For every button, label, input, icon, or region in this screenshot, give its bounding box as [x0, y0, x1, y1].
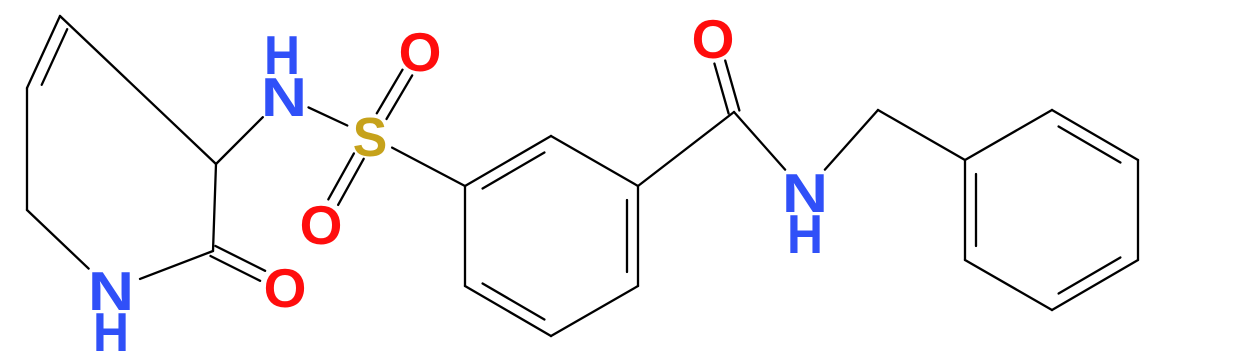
- wire S-C1: [392, 148, 465, 186]
- sulfonamide group: [309, 70, 466, 205]
- amide group: [638, 61, 965, 187]
- S=O top: [387, 75, 413, 119]
- phenyl edge 1: [965, 110, 1052, 160]
- wire C3-Nsulfonamide: [216, 117, 263, 164]
- benzene edge 5: [465, 286, 551, 336]
- phenyl double bond inner line: [1059, 127, 1121, 163]
- svg-text:O: O: [399, 21, 442, 83]
- wire N1-C2: [140, 251, 213, 279]
- phenyl edge 5: [965, 260, 1052, 310]
- wire C7-N1: [27, 210, 89, 269]
- benzene edge 2: [551, 136, 638, 186]
- svg-text:H: H: [93, 301, 129, 361]
- benzene double bond inner line: [483, 284, 545, 320]
- wire C2-C3: [213, 164, 216, 251]
- benzene edge 6: [464, 186, 466, 286]
- central benzene ring: [465, 136, 638, 336]
- atom labels: [88, 8, 828, 361]
- right phenyl ring: [965, 110, 1138, 310]
- wire CH2-phenyl: [878, 110, 965, 160]
- double bond C5=C6: [27, 16, 60, 88]
- svg-text:O: O: [692, 8, 735, 70]
- wire N-S: [309, 107, 348, 125]
- phenyl edge 4: [1052, 260, 1138, 310]
- benzene edge 1: [465, 136, 551, 186]
- svg-text:N: N: [261, 66, 307, 128]
- svg-text:H: H: [787, 203, 823, 265]
- benzene double bond inner line: [483, 153, 545, 189]
- svg-text:S: S: [353, 106, 388, 168]
- wire CO-Namide: [734, 112, 785, 170]
- wire C3b-CO: [638, 112, 734, 186]
- phenyl edge 3: [1137, 160, 1139, 260]
- amide C=O: [725, 61, 739, 111]
- phenyl double bond inner line: [975, 174, 977, 246]
- left lactam ring: [27, 16, 265, 281]
- carbonyl C2=O: [211, 256, 261, 281]
- phenyl edge 2: [1052, 110, 1138, 160]
- phenyl edge 6: [964, 160, 966, 260]
- phenyl double bond inner line: [1059, 258, 1121, 294]
- wire C3-C4-C5: [60, 16, 216, 164]
- benzene edge 4: [551, 286, 638, 336]
- svg-text:O: O: [264, 257, 307, 319]
- benzene double bond inner line: [626, 200, 628, 272]
- svg-text:O: O: [300, 194, 343, 256]
- wire Namide-CH2: [825, 110, 878, 170]
- S=O bottom: [328, 153, 354, 199]
- wire C6-C7: [26, 88, 28, 210]
- benzene edge 3: [637, 186, 639, 286]
